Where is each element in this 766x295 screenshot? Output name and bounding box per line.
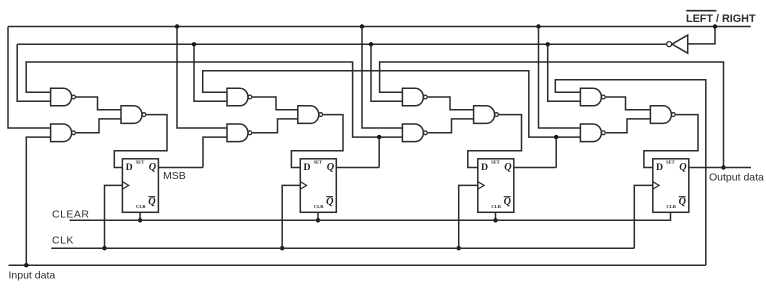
svg-text:Input data: Input data — [9, 270, 56, 282]
wire L2 inverted bus — [17, 43, 666, 45]
wire L2 to stage4 NAND7 input — [548, 44, 581, 101]
wire U11 out to U12 — [606, 119, 651, 133]
svg-text:D: D — [481, 162, 488, 173]
svg-text:SET: SET — [314, 159, 323, 164]
nand gate U12 stage4 mux — [650, 106, 675, 124]
wire L1 to inverter input — [688, 27, 715, 44]
inverter U13 — [667, 35, 688, 53]
junction FF2.Q riser — [377, 135, 381, 139]
wire L1 to stage2 NAND4 input — [177, 27, 227, 129]
nand gate U2 stage1 bottom — [51, 124, 76, 142]
FF4 label Q — [679, 162, 687, 173]
FF4 label Qbar — [679, 196, 687, 207]
nand gate U7 stage3 top — [402, 88, 427, 106]
FF4 label SET — [666, 159, 675, 164]
svg-text:MSB: MSB — [163, 170, 186, 182]
FF3 label Qbar — [504, 196, 512, 207]
wire CLK line — [51, 247, 634, 249]
FF3 label Q — [504, 162, 512, 173]
wire net FF3.Q — [203, 71, 581, 137]
label LEFT overline — [686, 10, 716, 12]
wire L2 left drop to stage1 NAND1 input — [17, 44, 50, 101]
junction L1 tap stage3 — [360, 24, 364, 28]
nand gate U11 stage4 bottom — [580, 124, 605, 142]
junction CLK tap FF1 — [102, 246, 106, 250]
nand gate U3 stage1 mux — [121, 106, 146, 124]
FF1 label Q — [149, 162, 157, 173]
junction CLK tap FF2 — [280, 246, 284, 250]
nand gate U4 stage2 top — [227, 88, 252, 106]
junction input data tap — [24, 263, 28, 267]
wire L1 left drop to stage1 NAND2 input — [8, 27, 51, 129]
junction L2 tap stage2 — [192, 42, 196, 46]
wire U5 out to U6 — [252, 119, 297, 133]
wire FF3.Q output — [514, 167, 556, 169]
FF1 label CLR — [136, 204, 146, 209]
FF4 clock triangle — [653, 182, 659, 189]
wire U4 out to U6 — [252, 97, 297, 110]
wire input data to stage1 NAND2 — [26, 137, 50, 265]
junction CLK tap FF3 — [457, 246, 461, 250]
label CLK — [52, 235, 74, 247]
FF1 label Qbar — [148, 196, 156, 207]
svg-text:CLR: CLR — [136, 204, 146, 209]
wire CLEAR line — [70, 212, 671, 220]
wire U2 out to U3 — [76, 119, 121, 133]
FF4 label D — [656, 162, 663, 173]
svg-text:CLR: CLR — [666, 204, 676, 209]
wire FF2.Q riser — [378, 137, 380, 167]
wire CLK riser FF4 — [634, 185, 653, 248]
nand gate U6 stage2 mux — [298, 106, 323, 124]
FF2 clock triangle — [300, 182, 306, 189]
flip-flop FF3 box — [478, 159, 514, 213]
FF3 label SET — [491, 159, 500, 164]
svg-text:SET: SET — [666, 159, 675, 164]
FF3 label D — [481, 162, 488, 173]
svg-text:Q: Q — [504, 196, 512, 207]
wire input data line — [9, 264, 706, 266]
junction FF4.Q output line — [721, 165, 725, 169]
wire CLK riser FF3 — [459, 185, 478, 248]
svg-text:Q: Q — [679, 162, 687, 173]
wire net FF2.Q top segment — [26, 62, 402, 137]
FF1 label SET — [136, 159, 145, 164]
wire U9 out to FF3 D — [468, 115, 522, 168]
junction FF2 CLR on CLEAR line — [316, 218, 320, 222]
wire U10 out to U12 — [606, 97, 651, 110]
FF2 label D — [304, 162, 311, 173]
svg-text:Q: Q — [327, 162, 335, 173]
nand gate U5 stage2 bottom — [227, 124, 252, 142]
wire CLK riser FF1 — [105, 185, 123, 248]
svg-text:CLEAR: CLEAR — [52, 209, 90, 221]
wire FF4.Q output data line — [689, 167, 751, 169]
junction FF3 CLR on CLEAR line — [493, 218, 497, 222]
flip-flop FF4 box — [653, 159, 689, 213]
junction L1 tap stage4 — [536, 24, 540, 28]
junction FF1 CLR on CLEAR line — [138, 218, 142, 222]
wire U3 out to FF1 D — [114, 115, 167, 168]
svg-text:Q: Q — [326, 196, 334, 207]
junction L1 tap stage2 — [175, 24, 179, 28]
wire U7 out to U9 — [428, 97, 474, 110]
junction inverter input tap — [713, 24, 717, 28]
nand gate U8 stage3 bottom — [402, 124, 427, 142]
wire FF1 CLR tap — [139, 212, 141, 220]
wire FF2.Q output — [336, 167, 379, 169]
wire FF3.Q riser — [555, 137, 557, 167]
label Output data — [709, 172, 764, 184]
nand gate U9 stage3 mux — [474, 106, 499, 124]
wire L2 to stage2 NAND3 input — [194, 44, 227, 101]
svg-text:SET: SET — [136, 159, 145, 164]
label MSB — [163, 170, 186, 182]
FF2 label Qbar — [326, 196, 334, 207]
svg-text:Output data: Output data — [709, 172, 764, 184]
label Input data — [9, 270, 56, 282]
FF3 label CLR — [491, 204, 501, 209]
FF4 label CLR — [666, 204, 676, 209]
wire L2 to stage3 NAND5 input — [371, 44, 402, 101]
wire L1 LEFT/RIGHT bus — [8, 26, 751, 28]
wire U8 out to U9 — [428, 119, 474, 133]
wire U12 out to FF4 D — [644, 115, 698, 168]
label CLEAR — [52, 209, 90, 221]
wire net FF4.Q top segment — [380, 62, 724, 168]
wire U6 out to FF2 D — [291, 115, 343, 168]
junction L2 tap stage4 — [546, 42, 550, 46]
wire FF3 CLR tap — [495, 212, 497, 220]
svg-text:Q: Q — [679, 196, 687, 207]
wire CLK riser FF2 — [282, 185, 300, 248]
FF2 label CLR — [314, 204, 324, 209]
wire FF1.Q output — [158, 167, 203, 169]
svg-text:LEFT / RIGHT: LEFT / RIGHT — [686, 13, 756, 25]
junction FF3.Q riser — [554, 135, 558, 139]
svg-text:CLR: CLR — [314, 204, 324, 209]
nand gate U10 stage4 top — [580, 88, 605, 106]
svg-text:SET: SET — [491, 159, 500, 164]
svg-text:D: D — [126, 162, 133, 173]
junction L2 tap stage3 — [369, 42, 373, 46]
wire L1 to stage3 NAND6 input — [362, 27, 402, 129]
svg-text:CLR: CLR — [491, 204, 501, 209]
wire U1 out to U3 — [76, 97, 121, 110]
flip-flop FF2 box — [300, 159, 336, 213]
label LEFT/RIGHT — [686, 13, 756, 25]
FF2 label Q — [327, 162, 335, 173]
nand gate U1 stage1 top — [51, 88, 76, 106]
svg-text:CLK: CLK — [52, 235, 74, 247]
svg-text:D: D — [656, 162, 663, 173]
FF1 clock triangle — [122, 182, 128, 189]
svg-text:D: D — [304, 162, 311, 173]
wire input data to stage4 — [555, 80, 706, 265]
wire FF1.Q to stage2 NAND4 — [203, 137, 227, 167]
svg-text:Q: Q — [149, 162, 157, 173]
wire L1 to stage4 NAND8 input — [539, 27, 581, 129]
FF3 clock triangle — [478, 182, 484, 189]
FF2 label SET — [314, 159, 323, 164]
FF1 label D — [126, 162, 133, 173]
wire FF2 CLR tap — [317, 212, 319, 220]
flip-flop FF1 box — [122, 159, 158, 213]
svg-text:Q: Q — [148, 196, 156, 207]
svg-text:Q: Q — [504, 162, 512, 173]
